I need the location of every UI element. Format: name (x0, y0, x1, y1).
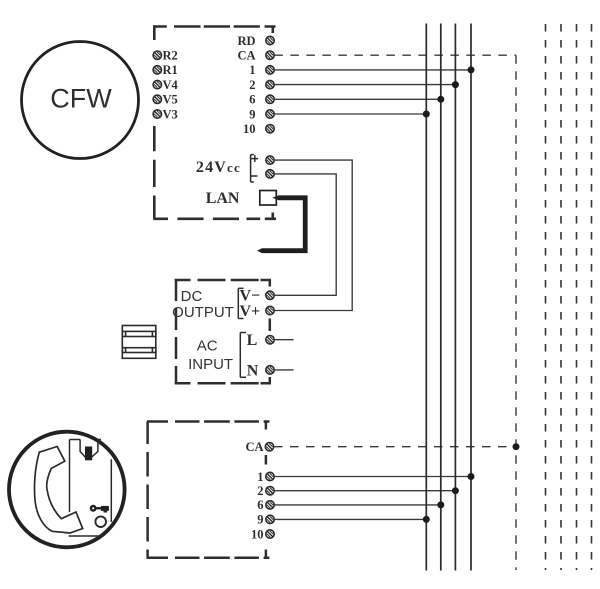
power supply dashed box (175, 279, 271, 384)
svg-text:V3: V3 (163, 107, 178, 121)
terminal 24Vcc + (266, 156, 274, 164)
svg-text:9: 9 (257, 513, 263, 527)
svg-text:CA: CA (237, 49, 255, 63)
terminal 10 (top) (266, 125, 274, 133)
terminal 6 (top) (266, 95, 274, 103)
AC mains plug icon (122, 326, 156, 359)
svg-text:V5: V5 (163, 93, 178, 107)
terminal N (266, 366, 274, 374)
terminal 1 (bottom) (266, 472, 274, 480)
svg-text:6: 6 (249, 93, 255, 107)
wire 1 bottom (274, 476, 471, 478)
terminal RD (266, 36, 274, 44)
terminal V3 (153, 110, 161, 118)
svg-text:RD: RD (237, 34, 255, 48)
24Vcc polarity bracket (251, 155, 259, 182)
telephone hook (filled) (85, 447, 92, 461)
svg-text:L: L (247, 332, 258, 349)
svg-text:OUTPUT: OUTPUT (172, 304, 234, 321)
svg-text:V+: V+ (240, 303, 261, 320)
wire 24Vcc - to V- (274, 174, 336, 295)
terminal 6 (bottom) (266, 501, 274, 509)
terminal V+ (266, 306, 274, 314)
terminal 9 (bottom) (266, 515, 274, 523)
bus line C (454, 24, 456, 571)
telephone base panel (69, 440, 112, 537)
wire 9 bottom (274, 518, 426, 520)
svg-text:LAN: LAN (206, 190, 240, 207)
svg-text:10: 10 (251, 527, 264, 541)
bus line B (440, 24, 442, 571)
svg-text:2: 2 (249, 78, 255, 92)
svg-text:CFW: CFW (50, 84, 112, 114)
svg-text:DC: DC (181, 288, 203, 305)
svg-text:2: 2 (257, 484, 263, 498)
junction dot 1 bottom (468, 473, 475, 480)
svg-text:1: 1 (257, 470, 263, 484)
bus line D (470, 24, 472, 571)
extension dashed line 2 (560, 24, 562, 570)
wire 1 top (274, 69, 471, 71)
extension dashed line 4 (591, 24, 593, 570)
wire CA bottom (dashed) (274, 446, 516, 448)
DC output bracket (238, 288, 243, 318)
telephone handset (34, 447, 82, 534)
wire N stub (274, 369, 293, 371)
svg-text:6: 6 (257, 498, 263, 512)
wire CA top (dashed) (274, 54, 516, 56)
junction dot 9 top (423, 111, 430, 118)
terminal 9 (top) (266, 110, 274, 118)
terminal 1 (top) (266, 66, 274, 74)
AC input bracket (240, 333, 246, 378)
terminal L (266, 336, 274, 344)
terminal R1 (153, 66, 161, 74)
terminal R2 (153, 51, 161, 59)
terminal V4 (153, 80, 161, 88)
terminal 10 (bottom) (266, 530, 274, 538)
terminal 24Vcc - (266, 170, 274, 178)
CFW drive circle (22, 42, 139, 159)
LAN cable (257, 195, 308, 253)
LAN connector (260, 191, 277, 206)
telephone dial circle (95, 516, 106, 527)
svg-text:24Vcc: 24Vcc (196, 159, 241, 176)
telephone key icon (90, 505, 109, 513)
junction dot CA (513, 443, 520, 450)
svg-text:10: 10 (243, 122, 256, 136)
terminal CA (bottom) (265, 443, 273, 451)
svg-text:AC: AC (197, 337, 218, 354)
svg-text:CA: CA (245, 440, 263, 454)
svg-text:9: 9 (249, 107, 255, 121)
svg-text:V−: V− (240, 288, 261, 305)
junction dot 6 top (437, 96, 444, 103)
CFW module dashed box (153, 25, 276, 219)
CA bus (dashed vertical) (515, 55, 517, 570)
svg-text:INPUT: INPUT (188, 356, 233, 373)
terminal 2 (bottom) (266, 487, 274, 495)
svg-text:V4: V4 (163, 78, 179, 92)
extension dashed line 1 (545, 24, 547, 570)
svg-text:1: 1 (249, 63, 255, 77)
wire 2 bottom (274, 490, 455, 492)
extension dashed line 3 (576, 24, 578, 570)
telephone dashed box (147, 422, 270, 559)
terminal 2 (top) (266, 80, 274, 88)
junction dot 2 bottom (452, 487, 459, 494)
terminal CA (top) (266, 51, 274, 59)
junction dot 1 top (468, 66, 475, 73)
svg-text:R2: R2 (163, 49, 178, 63)
junction dot 6 bottom (437, 501, 444, 508)
terminal V5 (153, 95, 161, 103)
junction dot 9 bottom (423, 516, 430, 523)
terminal V- (266, 291, 274, 299)
bus line A (425, 24, 427, 571)
svg-text:R1: R1 (163, 63, 178, 77)
junction dot 2 top (452, 81, 459, 88)
wire 6 bottom (274, 504, 440, 506)
wire L stub (274, 339, 293, 341)
telephone circle (9, 432, 125, 548)
wire 6 top (274, 98, 440, 100)
svg-text:N: N (247, 362, 259, 379)
wire 9 top (274, 113, 426, 115)
wire 24Vcc + to V+ (274, 160, 352, 310)
wire 2 top (274, 84, 455, 86)
